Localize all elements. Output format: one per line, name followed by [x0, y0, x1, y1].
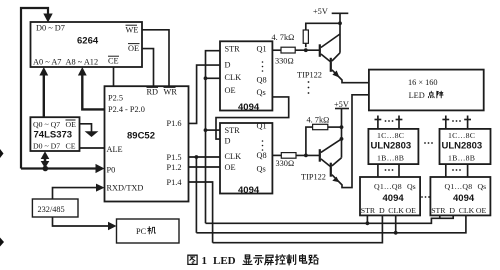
svg-text:1C…8C: 1C…8C [448, 131, 475, 140]
svg-text:ULN2803: ULN2803 [371, 140, 412, 151]
svg-text:6264: 6264 [77, 36, 99, 47]
svg-text:P1.5: P1.5 [167, 153, 182, 162]
svg-text:OE: OE [128, 44, 139, 53]
svg-text:P1.2: P1.2 [167, 163, 182, 172]
svg-text:A0 ~ A7: A0 ~ A7 [33, 57, 61, 66]
svg-text:4094: 4094 [238, 102, 260, 113]
svg-text:+5V: +5V [313, 7, 328, 16]
svg-text:4. 7kΩ: 4. 7kΩ [272, 33, 295, 42]
svg-text:D: D [225, 61, 231, 70]
svg-text:Q8: Q8 [257, 151, 267, 160]
svg-text:Qs: Qs [257, 165, 266, 174]
svg-text:D0 ~ D7: D0 ~ D7 [36, 24, 65, 33]
svg-text:Qs: Qs [257, 88, 266, 97]
svg-text:Qs: Qs [407, 182, 416, 191]
svg-text:STR: STR [225, 44, 241, 53]
svg-text:OE: OE [406, 206, 417, 215]
svg-text:D: D [225, 136, 231, 145]
svg-text:OE: OE [225, 163, 236, 172]
svg-text:74LS373: 74LS373 [34, 130, 73, 141]
svg-text:4094: 4094 [383, 193, 405, 204]
svg-text:D: D [449, 206, 455, 215]
svg-text:STR: STR [225, 126, 241, 135]
svg-text:STR: STR [431, 206, 446, 215]
svg-text:Q1…Q8: Q1…Q8 [445, 182, 473, 191]
svg-text:CLK: CLK [225, 73, 242, 82]
svg-text:WR: WR [164, 87, 178, 96]
svg-text:330Ω: 330Ω [276, 159, 295, 168]
svg-text:A8 ~ A12: A8 ~ A12 [66, 57, 99, 66]
svg-text:LED: LED [409, 91, 425, 100]
svg-text:89C52: 89C52 [127, 131, 155, 142]
svg-text:1B…8B: 1B…8B [377, 153, 404, 162]
svg-text:D0 ~ D7: D0 ~ D7 [33, 141, 60, 150]
svg-text:RD: RD [147, 87, 159, 96]
svg-text:Q8: Q8 [257, 76, 267, 85]
svg-text:CLK: CLK [459, 206, 475, 215]
svg-text:OE: OE [225, 86, 236, 95]
svg-text:OE: OE [66, 120, 77, 129]
svg-text:D: D [379, 206, 385, 215]
svg-text:P1.6: P1.6 [167, 119, 182, 128]
svg-text:Qs: Qs [478, 182, 487, 191]
svg-text:Q1: Q1 [257, 122, 267, 131]
svg-text:232/485: 232/485 [38, 205, 65, 214]
svg-text:16 × 160: 16 × 160 [408, 78, 438, 87]
svg-text:1: 1 [202, 255, 208, 267]
svg-text:LED: LED [213, 255, 236, 267]
svg-text:CLK: CLK [225, 152, 242, 161]
svg-text:TIP122: TIP122 [301, 172, 326, 181]
svg-text:P2.5: P2.5 [108, 93, 123, 102]
svg-text:ULN2803: ULN2803 [442, 140, 483, 151]
svg-text:330Ω: 330Ω [275, 57, 294, 66]
svg-text:RXD/TXD: RXD/TXD [107, 184, 144, 193]
svg-text:+5V: +5V [334, 100, 349, 109]
svg-text:1B…8B: 1B…8B [448, 153, 475, 162]
svg-text:PC: PC [136, 227, 147, 236]
svg-text:Q1…Q8: Q1…Q8 [374, 182, 402, 191]
svg-text:STR: STR [361, 206, 376, 215]
svg-text:Q0 ~ Q7: Q0 ~ Q7 [33, 120, 60, 129]
svg-text:WE: WE [126, 26, 139, 35]
svg-text:ALE: ALE [107, 145, 123, 154]
svg-text:CLK: CLK [388, 206, 404, 215]
svg-text:4094: 4094 [238, 185, 260, 196]
svg-text:P2.4 - P2.0: P2.4 - P2.0 [108, 105, 145, 114]
svg-text:OE: OE [476, 206, 487, 215]
svg-text:4094: 4094 [453, 193, 475, 204]
svg-text:CE: CE [108, 57, 119, 66]
svg-text:CE: CE [66, 141, 76, 150]
svg-text:Q1: Q1 [257, 44, 267, 53]
svg-text:TIP122: TIP122 [297, 70, 322, 79]
svg-text:P1.4: P1.4 [167, 178, 183, 187]
svg-text:4. 7kΩ: 4. 7kΩ [307, 115, 330, 124]
svg-text:1C…8C: 1C…8C [377, 131, 404, 140]
svg-text:P0: P0 [107, 165, 116, 174]
